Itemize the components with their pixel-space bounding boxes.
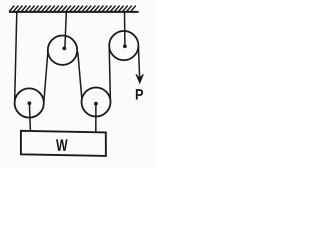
node axle dot C3 <box>94 102 98 106</box>
ceiling line <box>9 11 139 13</box>
weight box W <box>21 131 106 156</box>
svg-text:P: P <box>135 85 144 102</box>
wire hanger ceiling to C4 <box>124 12 126 45</box>
ceiling hatching <box>9 6 136 12</box>
wire rope left (ceiling to pulley C1) <box>15 12 17 100</box>
wire rope C1 to C2 <box>44 52 48 103</box>
node axle dot C2 <box>62 47 66 51</box>
node axle dot C4 <box>123 44 127 48</box>
wire rope C2 to C3 <box>78 52 82 101</box>
pulley C3 (lower middle, movable) <box>82 88 111 117</box>
pulley C1 (lower left, movable) <box>15 88 44 117</box>
svg-text:W: W <box>56 137 68 155</box>
wire hanger C1 to weight <box>29 103 30 131</box>
arrowhead of force P <box>136 74 144 83</box>
pulley C4 (upper right, fixed) <box>109 31 138 60</box>
node axle dot C1 <box>28 101 32 105</box>
wire hanger ceiling to C2 <box>65 12 66 48</box>
wire rope C3 to C4 <box>109 47 110 101</box>
wire hanger C3 to weight <box>95 104 97 133</box>
pulley C2 (upper middle, fixed) <box>48 36 77 65</box>
wire rope C4 down to force P <box>138 46 139 80</box>
